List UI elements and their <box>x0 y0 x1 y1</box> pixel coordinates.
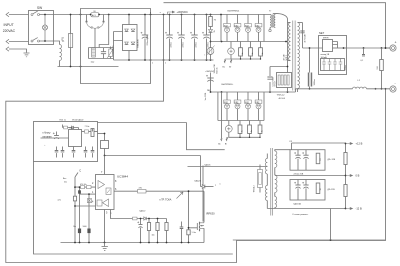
cell1 cap1 stub <box>297 150 299 171</box>
junction dots plus bus <box>128 14 211 16</box>
svg-text:VD14 КД522: VD14 КД522 <box>72 119 84 121</box>
junction gnd bus <box>74 242 189 244</box>
junction x345 <box>345 143 347 210</box>
input terminal X1 line <box>6 12 9 16</box>
wire block1 branch 3 upper <box>247 14 249 23</box>
svg-text:б: б <box>152 63 153 65</box>
wire cs res 2 <box>157 219 159 243</box>
IC DA1 TL431 box <box>69 130 82 147</box>
wire block1 res 3 stubs <box>260 42 262 60</box>
capacitor C15 out <box>362 55 365 56</box>
wire block1 left edge <box>220 15 222 42</box>
wire cs res 3 <box>166 219 168 243</box>
stub standby 3 <box>73 147 75 158</box>
wire input L to switch <box>9 14 29 16</box>
capacitor C11 output <box>308 73 312 87</box>
junction vcc <box>104 155 106 157</box>
bridge rectifier VD1 box <box>123 25 138 51</box>
dots block1 collect <box>240 58 261 59</box>
transformer T1 primary winding <box>289 23 291 61</box>
wire xcap bottom rail <box>89 48 114 59</box>
diode VD14 <box>71 126 73 129</box>
junction left pins <box>74 186 90 207</box>
wire block2 branch 3 lower <box>247 109 249 121</box>
wire x181 branch <box>181 222 183 243</box>
capacitor C5 bulk <box>177 32 185 39</box>
lamp HL in switch <box>43 15 48 42</box>
switch SW box <box>29 11 54 45</box>
capacitor C14 in NET <box>328 59 332 71</box>
capacitor C23 sec <box>300 31 304 33</box>
wire block2 branch 1 upper <box>226 92 228 100</box>
wire y47.5 to NET box <box>303 47 323 49</box>
diode VD16 vcc <box>202 185 205 189</box>
svg-text:КД522: КД522 <box>195 181 202 183</box>
wire doubler center tap <box>94 28 96 47</box>
svg-text:L1: L1 <box>62 41 65 43</box>
capacitor cell1 C2 <box>302 152 308 159</box>
wire gate pulldown <box>188 228 190 243</box>
capacitor C15 in NET <box>333 59 337 71</box>
resistor R23 cs <box>147 223 150 231</box>
wire bridge minus to bottom bus <box>128 51 130 61</box>
wire block1 res 2 stubs <box>250 42 252 60</box>
winding bar 1 snubber <box>278 75 280 85</box>
junction C3 <box>144 14 146 61</box>
svg-text:ДФ+12В: ДФ+12В <box>328 158 336 161</box>
wire sec tap top <box>275 150 290 151</box>
winding bar 4 snubber <box>287 75 289 85</box>
wire block2 arrow vert <box>221 92 223 138</box>
output module NET box <box>319 36 347 75</box>
wire C16 riser <box>56 132 58 136</box>
svg-text:а: а <box>215 185 217 187</box>
resistor R15 small <box>64 126 68 129</box>
svg-text:б: б <box>220 184 221 186</box>
wire xcap top rail <box>89 47 114 49</box>
wire x186 elbow to x224 <box>187 123 225 150</box>
junction x104 y133 <box>104 133 106 135</box>
capacitor C13 in NET <box>322 59 326 71</box>
resistor R26 gate <box>138 190 147 194</box>
snubber box damper <box>277 73 292 88</box>
wire control ground bus <box>61 242 205 244</box>
junction nested <box>330 239 332 241</box>
wire block2 res branch 1 <box>239 121 241 138</box>
resistor cell2 <box>316 183 320 194</box>
diode VD7 label box block2 <box>224 100 231 104</box>
wire block2 branch 2 upper <box>237 92 239 100</box>
svg-text:Вт: Вт <box>225 144 227 146</box>
winding bar 2 snubber <box>281 75 283 85</box>
svg-text:INPUT: INPUT <box>4 23 14 27</box>
capacitor cell2 C1 <box>294 182 300 189</box>
diode VD15 small <box>85 130 89 133</box>
svg-text:КД522: КД522 <box>140 211 147 213</box>
capacitor C1 mains filter <box>92 48 96 57</box>
transformer T2 secondary lower <box>275 175 277 193</box>
wire AC bottom bus <box>58 66 119 68</box>
junction bleeder bottom <box>375 88 387 90</box>
svg-text:ВЫПРЯМ.Б.: ВЫПРЯМ.Б. <box>222 84 234 86</box>
wire standby to x104 <box>98 133 105 135</box>
cell1 cap2 stub <box>305 150 307 171</box>
resistor R5 block1 <box>259 48 263 56</box>
svg-text:470: 470 <box>139 188 143 190</box>
terminal T3 bottom <box>269 29 271 31</box>
svg-text:4н7 250В: 4н7 250В <box>305 34 307 43</box>
svg-text:Тт: Тт <box>269 11 271 13</box>
wire T2 primary mid link <box>266 174 268 186</box>
wire cap bank branch 2 <box>181 15 183 61</box>
osc box inside UC <box>97 200 102 206</box>
cell2 cap1 stub <box>297 180 299 201</box>
opamp1 inside UC <box>98 181 105 189</box>
svg-text:10: 10 <box>320 159 322 161</box>
svg-text:220мк: 220мк <box>182 42 184 47</box>
start diag wire <box>75 173 78 178</box>
diode VD3 label box <box>224 24 231 28</box>
input terminal X2 neutral <box>6 39 9 43</box>
wire nested route inner <box>34 162 386 255</box>
svg-text:220мк 400В: 220мк 400В <box>147 35 149 46</box>
capacitor C18 box <box>88 199 92 203</box>
svg-text:3к: 3к <box>262 52 264 54</box>
wire cap bank branch 3 <box>194 15 196 61</box>
wire cap bank branch 4 <box>206 15 208 61</box>
svg-text:6: 6 <box>115 188 117 191</box>
wire x74 column <box>74 177 76 243</box>
wire plus term link <box>386 47 390 49</box>
wire top rail to output <box>164 3 386 48</box>
wire y91 rail <box>211 91 296 93</box>
thermistor RT1 <box>207 46 215 56</box>
wire input N to switch <box>9 41 29 43</box>
ground symbol control <box>102 247 108 251</box>
wire T1 secondary top stub <box>298 22 303 24</box>
pin2 wire <box>75 186 96 188</box>
wire T2 sec aux link <box>274 193 276 197</box>
wire block2 branch 3 upper <box>247 92 249 100</box>
svg-text:ТПИ-4-2: ТПИ-4-2 <box>254 185 256 192</box>
diode VD4 label box <box>234 24 241 28</box>
diode VD7 circle block2 <box>225 104 230 109</box>
capacitor stub 4 <box>84 151 88 152</box>
wire bridge plus to top bus <box>128 15 130 25</box>
arrow output 0 В <box>346 174 360 178</box>
wire x345 col <box>345 144 347 209</box>
wire mid bus y41 <box>211 41 288 43</box>
pin7 wire <box>104 156 106 175</box>
svg-text:SW: SW <box>37 6 42 10</box>
junction y41 ends <box>221 41 287 43</box>
wire damper stubs <box>259 165 261 193</box>
fuse holder F2 on bus <box>91 11 99 17</box>
capacitor stub 1 <box>55 151 59 152</box>
capacitor C7 bulk <box>202 32 210 39</box>
capacitor stub 2 <box>61 151 65 152</box>
diode VD1.4 <box>131 42 135 45</box>
svg-text:470 10к: 470 10к <box>80 184 87 186</box>
arrow output -12 В <box>346 207 362 211</box>
svg-text:+: + <box>395 41 397 45</box>
svg-text:t: t <box>205 54 206 57</box>
filter box small <box>101 141 109 149</box>
diode VD6 label box <box>255 24 262 28</box>
wire AC top bus <box>54 14 271 16</box>
capacitor C9 plus circle <box>225 125 232 132</box>
diode VD1.1 <box>125 29 129 32</box>
wire block1 res 1 stubs <box>240 42 242 60</box>
wire block2 res branch 2 <box>249 121 251 138</box>
diode VD6 circle <box>256 27 261 32</box>
svg-text:1000: 1000 <box>83 226 87 228</box>
wire standby top row <box>63 125 79 128</box>
capacitor C3 bulk <box>141 32 149 39</box>
arrow output block1 a <box>224 59 231 63</box>
capacitor C4 bulk <box>165 32 173 39</box>
wire T1 primary top stub <box>288 22 291 24</box>
diode VD8 circle block2 <box>235 104 240 109</box>
switch SW bottom contact <box>31 38 54 42</box>
diode VD10 label box block2 <box>255 100 262 104</box>
resistor R10 block2 <box>248 125 252 134</box>
svg-text:1: 1 <box>92 191 94 194</box>
svg-text:L2: L2 <box>358 80 361 82</box>
wire x104 down <box>104 134 106 156</box>
wire bypass loop <box>81 9 151 15</box>
filter cell box 2 <box>290 180 325 201</box>
junction dots AC buses <box>70 14 82 68</box>
wire block1 collect <box>231 58 261 60</box>
wire sec tap mid <box>275 175 346 177</box>
wire block1 branch 1 upper <box>226 14 228 23</box>
arrow +300VDC <box>168 11 175 14</box>
mosfet VT9 <box>197 222 204 232</box>
wire R2 branch <box>210 15 212 61</box>
svg-text:+12 В: +12 В <box>356 142 363 146</box>
svg-text:10н: 10н <box>73 226 76 228</box>
svg-text:1мк 250В: 1мк 250В <box>205 92 207 101</box>
capacitor cell2 C2 <box>302 182 308 189</box>
diode VD17 cs <box>144 217 146 220</box>
wire C11 branch <box>309 48 311 89</box>
junction y66 <box>287 66 289 68</box>
junction gate line <box>188 190 190 228</box>
resistor R4 block1 <box>249 48 253 56</box>
junction C11 <box>309 47 311 90</box>
IC DA2 krenka box <box>323 40 333 52</box>
wire snubber cap branch <box>269 67 271 93</box>
svg-text:выход 5В: выход 5В <box>321 54 330 56</box>
capacitor stub 5 <box>91 151 95 152</box>
resistor R11 block2 <box>258 125 262 134</box>
svg-text:R15 1к: R15 1к <box>60 119 66 121</box>
svg-text:220мк: 220мк <box>345 65 347 70</box>
svg-text:3к: 3к <box>251 130 253 132</box>
wire y66 link <box>270 66 288 68</box>
wire minus term link <box>367 88 390 90</box>
wire T2 sec upper links <box>274 168 276 176</box>
fuse FU <box>69 34 73 48</box>
wire VD14 down to DA1 <box>78 128 80 130</box>
wire out top y142 <box>292 143 346 150</box>
diode VD4 circle <box>235 27 240 32</box>
wire T2 core <box>271 148 273 216</box>
svg-text:3к: 3к <box>252 52 254 54</box>
filter cell box 1 <box>290 150 325 171</box>
dots block2 collect <box>239 137 260 138</box>
wire x200 down <box>200 156 202 187</box>
damper box T2 <box>258 170 263 188</box>
junction plus <box>385 47 387 49</box>
junction dots doubler <box>90 14 110 16</box>
junction y91 pts <box>210 91 289 93</box>
svg-text:1мк: 1мк <box>91 62 95 64</box>
svg-text:10к: 10к <box>152 235 155 237</box>
arrow output block2 b <box>226 137 229 141</box>
svg-text:0 В: 0 В <box>356 174 360 178</box>
svg-text:Вкл: Вкл <box>63 178 66 180</box>
resistor R2 <box>209 17 213 27</box>
wire x330 riser <box>330 209 332 241</box>
arrow output +12 В <box>346 142 363 146</box>
wire left arrow feed <box>41 137 69 139</box>
svg-text:220мк: 220мк <box>195 42 197 47</box>
svg-text:3к: 3к <box>242 52 244 54</box>
wire C21 <box>140 219 142 243</box>
wire vertical x80 <box>80 15 82 67</box>
capacitor stub 3 <box>72 151 76 152</box>
svg-text:Вн: Вн <box>223 67 225 69</box>
wire C17 stub <box>79 187 81 242</box>
svg-text:3к: 3к <box>241 130 243 132</box>
wire doubler stub right <box>103 15 105 22</box>
capacitor C21 cs <box>137 221 142 228</box>
svg-text:220VAC: 220VAC <box>3 29 16 33</box>
svg-text:510: 510 <box>377 66 379 69</box>
svg-text:220мк: 220мк <box>170 42 172 47</box>
wire Vcc y155 <box>105 155 201 157</box>
pin6 wire gate <box>114 190 204 192</box>
svg-text:Вт: Вт <box>229 67 231 69</box>
svg-text:UC3844: UC3844 <box>117 175 128 179</box>
wire gnd stub <box>104 243 106 247</box>
arrow to ct <box>177 192 184 199</box>
svg-text:б: б <box>165 63 166 65</box>
wire x287 vertical <box>287 19 289 73</box>
capacitor C10 snubber <box>267 77 272 79</box>
resistor R14 bleeder <box>380 60 384 71</box>
resistor R20 h <box>81 186 85 189</box>
wire earth input <box>9 49 27 53</box>
capacitor C20 fat <box>78 229 81 234</box>
wire C22 stubs <box>230 42 232 60</box>
capacitor C16 standby <box>53 132 59 139</box>
svg-text:40.104: 40.104 <box>279 98 286 100</box>
svg-text:7 10к: 7 10к <box>85 126 90 128</box>
svg-text:C: C <box>79 169 81 173</box>
IC DA3 UC3844 box <box>96 175 115 210</box>
wire block2 collect <box>229 136 260 138</box>
svg-text:3к: 3к <box>261 130 263 132</box>
wire T3 bottom stub <box>269 28 271 30</box>
diode VD5 label box <box>245 24 252 28</box>
cell2 cap2 stub <box>305 180 307 201</box>
wire block2 res branch 3 <box>259 121 261 138</box>
diode VD5 circle <box>246 27 251 32</box>
wire bleeder <box>381 48 383 89</box>
caps group box NET <box>321 59 345 71</box>
transformer T2 primary lower <box>265 186 267 201</box>
pwm latch box inside UC <box>106 188 111 195</box>
arrow output block1 b <box>230 59 232 63</box>
wire snubber box bottom stub <box>287 88 289 93</box>
capacitor C16 in NET <box>339 59 343 71</box>
junction dots minus bus <box>128 59 211 61</box>
diode VD1.2 <box>131 29 135 32</box>
svg-text:а: а <box>160 12 161 14</box>
wire block2 branch 1 lower <box>226 109 228 121</box>
svg-text:5: 5 <box>106 212 108 215</box>
wire block1 branch 2 upper <box>237 14 239 23</box>
wire block2 left edge <box>217 92 219 121</box>
inductor L2 output <box>353 87 367 89</box>
svg-text:7: 7 <box>101 171 103 174</box>
junction lamp taps <box>44 14 46 42</box>
capacitor C24 gs <box>180 227 184 229</box>
pin1 wire <box>80 193 96 195</box>
diode VD2 <box>209 30 213 33</box>
resistor R16 standby <box>91 129 94 137</box>
resistor R29 <box>344 153 347 165</box>
svg-text:-: - <box>395 82 397 86</box>
resistor R22 h cs <box>133 217 138 220</box>
pin3 wire <box>111 210 167 219</box>
opamp2 inside UC <box>103 199 109 207</box>
wire block2 right edge <box>263 92 265 121</box>
wire C9 stubs <box>228 121 230 138</box>
svg-text:220мк: 220мк <box>207 42 209 47</box>
capacitor C17 filled <box>78 190 81 193</box>
svg-text:100мк 25В: 100мк 25В <box>214 64 216 74</box>
wire block1 branch 4 upper <box>258 14 260 23</box>
svg-text:4: 4 <box>92 201 94 204</box>
wire zigzag to xcap <box>99 15 109 48</box>
transformer T2 primary upper <box>265 159 267 175</box>
wire y186 diode line <box>201 186 214 188</box>
switch SW top contact <box>31 11 54 15</box>
svg-text:NET: NET <box>319 31 325 35</box>
wire x210 mid <box>210 73 212 93</box>
wire fuse riser <box>70 15 72 67</box>
svg-text:1000мк: 1000мк <box>314 79 316 86</box>
svg-text:АС1: АС1 <box>92 14 96 17</box>
svg-text:8: 8 <box>115 180 117 183</box>
pin5 wire <box>104 210 106 243</box>
svg-text:R0: R0 <box>94 11 96 13</box>
svg-text:к блоку: к блоку <box>43 132 52 135</box>
wire cap bank branch 1 <box>169 15 171 61</box>
arrow output block2 a <box>221 138 223 141</box>
transformer T1 secondary winding <box>298 23 300 89</box>
diode VD10 circle block2 <box>256 104 261 109</box>
resistor R3 block1 <box>239 48 243 56</box>
wire block1 branch 3 lower <box>247 32 249 41</box>
wire y88 right <box>296 88 353 90</box>
wire drain link <box>203 191 205 222</box>
pin4 wire <box>75 205 96 207</box>
